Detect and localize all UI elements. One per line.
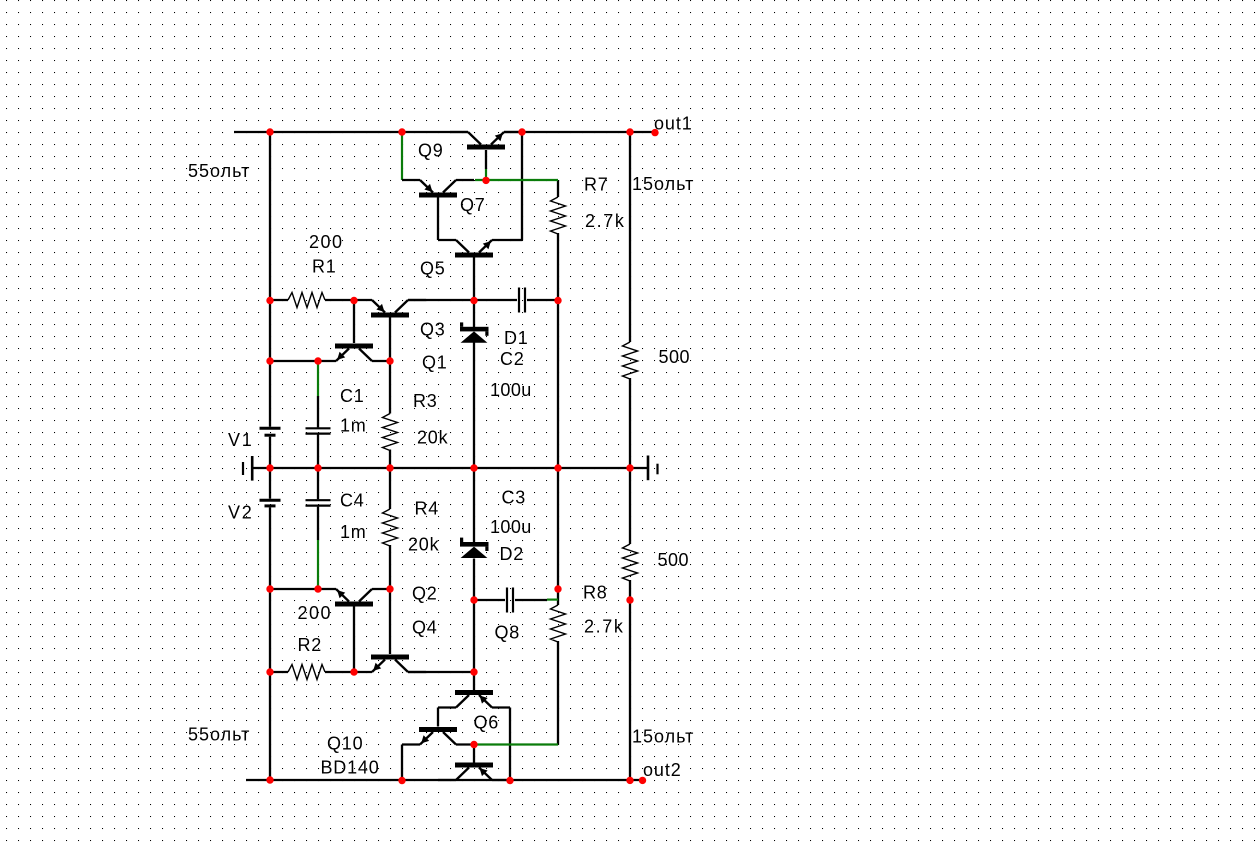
svg-text:R2: R2: [298, 635, 323, 655]
svg-text:15ольт: 15ольт: [632, 727, 694, 747]
svg-text:C1: C1: [340, 386, 365, 406]
svg-text:Q10: Q10: [327, 733, 363, 753]
svg-text:1m: 1m: [340, 522, 367, 542]
svg-text:500: 500: [658, 550, 690, 570]
svg-text:55ольт: 55ольт: [188, 161, 250, 181]
svg-text:D2: D2: [500, 544, 525, 564]
svg-text:100u: 100u: [490, 380, 532, 400]
svg-text:out2: out2: [643, 760, 682, 780]
svg-text:R3: R3: [413, 391, 438, 411]
svg-text:D1: D1: [504, 328, 529, 348]
svg-text:out1: out1: [654, 114, 693, 134]
svg-text:R7: R7: [584, 175, 609, 195]
svg-text:200: 200: [298, 603, 333, 623]
svg-text:Q6: Q6: [474, 713, 500, 733]
svg-text:R1: R1: [312, 257, 337, 277]
svg-text:20k: 20k: [417, 428, 449, 448]
svg-text:Q1: Q1: [422, 353, 448, 373]
svg-text:C2: C2: [500, 349, 525, 369]
svg-text:C4: C4: [340, 490, 365, 510]
svg-text:Q4: Q4: [412, 618, 438, 638]
svg-text:V2: V2: [228, 503, 253, 523]
svg-text:Q3: Q3: [420, 320, 446, 340]
svg-text:1m: 1m: [340, 416, 367, 436]
svg-text:Q8: Q8: [495, 623, 521, 643]
svg-text:R4: R4: [415, 499, 440, 519]
svg-text:V1: V1: [228, 430, 253, 450]
svg-text:15ольт: 15ольт: [632, 174, 694, 194]
svg-text:Q7: Q7: [460, 195, 486, 215]
svg-text:500: 500: [659, 347, 691, 367]
svg-text:20k: 20k: [408, 534, 440, 554]
svg-text:BD140: BD140: [321, 757, 380, 777]
svg-text:2.7k: 2.7k: [584, 617, 624, 637]
svg-text:100u: 100u: [490, 517, 532, 537]
svg-text:Q2: Q2: [412, 584, 438, 604]
svg-text:55ольт: 55ольт: [188, 725, 250, 745]
svg-text:R8: R8: [583, 583, 608, 603]
svg-text:2.7k: 2.7k: [585, 211, 625, 231]
svg-text:Q5: Q5: [420, 259, 446, 279]
svg-text:200: 200: [309, 232, 344, 252]
svg-text:C3: C3: [502, 488, 527, 508]
svg-text:Q9: Q9: [418, 141, 444, 161]
